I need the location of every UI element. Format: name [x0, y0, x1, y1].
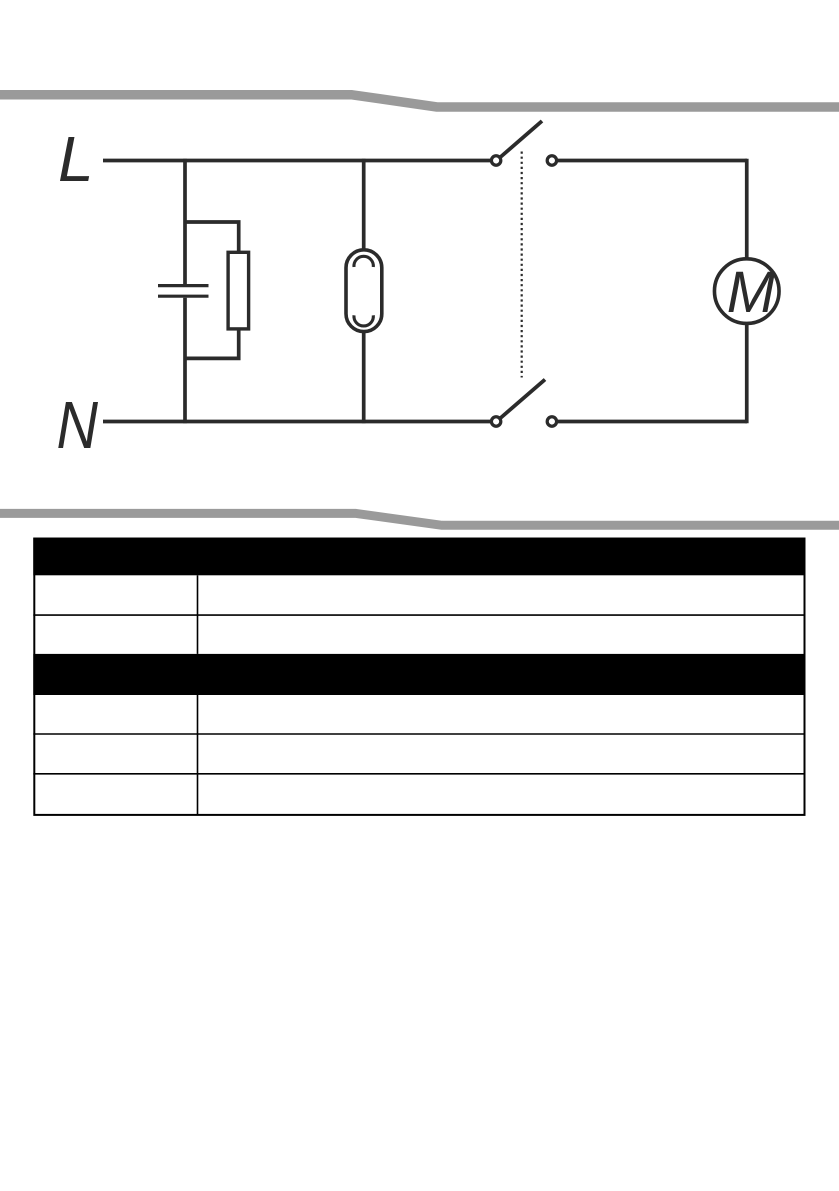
switch S1a left contact	[491, 156, 500, 165]
svg-text:L: L	[58, 123, 94, 195]
svg-text:N: N	[57, 388, 99, 463]
table inner horizontal line row1/row2	[33, 614, 805, 616]
top grey divider band	[0, 95, 839, 107]
switch S1b left contact	[491, 417, 500, 426]
capacitor C1 plates	[158, 286, 209, 297]
table header row 2 (black)	[33, 654, 805, 695]
wire resistor loop top	[185, 222, 238, 252]
table inner horizontal line row3/row4	[33, 733, 805, 735]
table column divider upper	[197, 575, 199, 654]
wire N bottom left	[103, 420, 490, 424]
table inner horizontal line row4/row5	[33, 773, 805, 775]
wire resistor loop bottom	[185, 329, 238, 358]
wire L top right	[558, 159, 747, 163]
glow lamp bottom electrode arc	[354, 315, 373, 326]
wire lamp branch lower	[362, 332, 366, 423]
lower grey divider band	[0, 513, 839, 525]
resistor R1 body	[228, 252, 249, 329]
switch S1a right contact	[547, 156, 556, 165]
wire N bottom right	[558, 420, 747, 424]
glow lamp top electrode arc	[354, 256, 373, 267]
wire L top left	[103, 159, 490, 163]
wire lamp branch upper	[362, 159, 366, 250]
wire motor branch upper	[745, 159, 749, 260]
table outer border	[34, 539, 804, 815]
switch linkage dotted line	[521, 152, 523, 378]
switch S1a lever	[501, 121, 543, 157]
switch S1b lever	[501, 380, 546, 419]
table header row 1 (black)	[33, 538, 805, 576]
switch S1b right contact	[547, 417, 556, 426]
table column divider lower	[197, 695, 199, 815]
wire motor branch lower	[745, 323, 749, 423]
motor M1 circle	[714, 259, 779, 324]
wire capacitor branch upper	[183, 159, 187, 284]
wire capacitor branch lower	[183, 298, 187, 424]
svg-text:M: M	[727, 260, 776, 325]
glow lamp E1 body	[346, 250, 382, 332]
